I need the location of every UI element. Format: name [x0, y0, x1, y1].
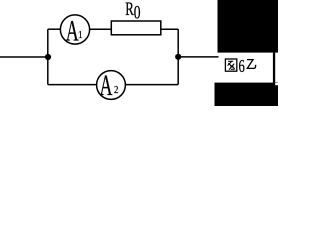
svg-text:A: A	[66, 15, 79, 48]
svg-text:A: A	[100, 69, 113, 102]
svg-text:R: R	[125, 0, 134, 20]
svg-text:1: 1	[78, 29, 83, 41]
svg-text:0: 0	[134, 1, 141, 23]
svg-text:6: 6	[239, 57, 245, 77]
svg-text:2: 2	[114, 84, 118, 96]
